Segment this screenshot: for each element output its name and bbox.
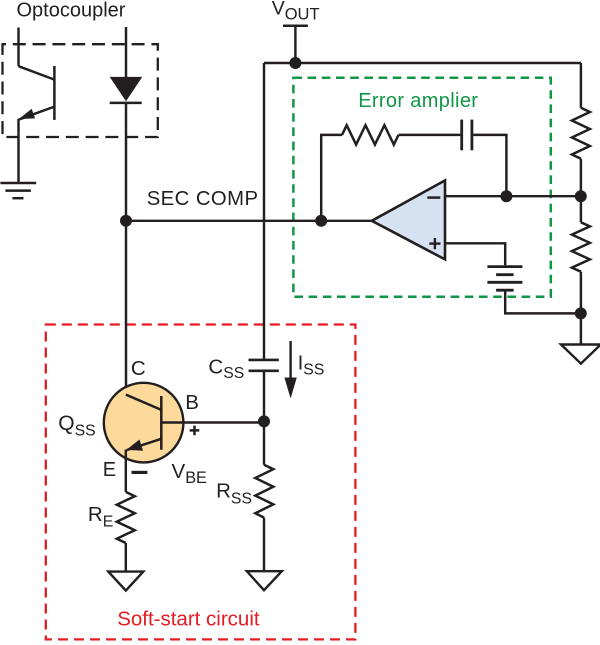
- wire noninverting input: [445, 243, 505, 265]
- wire inverting input: [445, 195, 581, 197]
- svg-text:Optocoupler: Optocoupler: [17, 0, 126, 21]
- error amplifier green dashed box: [293, 78, 550, 297]
- node divider mid junction: [575, 190, 587, 202]
- svg-text:ISS: ISS: [298, 351, 325, 378]
- transistor Q1 optocoupler phototransistor: [19, 28, 55, 183]
- optocoupler dashed box: [3, 44, 158, 137]
- minus sign at emitter: [132, 471, 148, 474]
- svg-text:QSS: QSS: [58, 412, 95, 440]
- diode D1 LED: [110, 77, 143, 103]
- svg-text:Error amplier: Error amplier: [358, 90, 478, 112]
- op-amp minus sign: [427, 196, 440, 199]
- wire divider bottom to ground: [580, 272, 582, 345]
- resistor RSS: [255, 465, 273, 518]
- node divider bottom junction: [575, 307, 587, 319]
- wire feedback left vertical: [321, 135, 342, 221]
- svg-text:RSS: RSS: [216, 480, 252, 508]
- wire left vertical branch from top rail to CSS: [263, 63, 265, 360]
- svg-text:RE: RE: [88, 503, 113, 530]
- svg-text:CSS: CSS: [208, 355, 244, 382]
- wire diode cathode down through SEC COMP to QSS collector: [125, 103, 127, 395]
- op-amp plus sign: [429, 238, 440, 249]
- plus sign at base: [190, 426, 200, 436]
- resistor RE: [117, 492, 135, 543]
- wire RSS to ground: [263, 518, 265, 572]
- ground (chassis triangle) under RE: [108, 572, 143, 591]
- ground (earth) under optocoupler: [0, 183, 36, 198]
- ground (chassis triangle) right rail: [561, 345, 600, 364]
- node inverting input junction: [500, 190, 512, 202]
- wire VOUT down to top rail: [294, 26, 296, 63]
- node error amp output junction: [315, 215, 327, 227]
- wire RE to ground: [125, 543, 127, 572]
- capacitor CSS: [249, 360, 279, 371]
- transistor QSS internals: [126, 395, 162, 492]
- resistor feedback: [342, 125, 399, 144]
- svg-text:SEC COMP: SEC COMP: [147, 188, 259, 210]
- svg-text:C: C: [131, 357, 146, 380]
- node VOUT junction: [289, 57, 301, 69]
- resistor R2 lower divider: [572, 222, 590, 271]
- svg-text:B: B: [185, 391, 199, 414]
- resistor R1 upper divider: [572, 108, 590, 159]
- svg-text:VOUT: VOUT: [272, 0, 320, 24]
- VOUT terminal bar: [283, 25, 308, 28]
- op-amp U1: [372, 180, 445, 259]
- wire capacitor to inverting input node: [473, 135, 506, 196]
- ground (chassis triangle) under RSS: [247, 571, 282, 590]
- svg-text:VBE: VBE: [172, 460, 208, 487]
- node SEC COMP left junction: [120, 215, 132, 227]
- wire SEC COMP horizontal: [126, 220, 372, 222]
- wire QSS base to node: [161, 421, 264, 423]
- wire CSS bottom to base node and RSS: [263, 371, 265, 465]
- transistor QSS body: [104, 383, 184, 463]
- current arrow ISS: [284, 341, 296, 399]
- wire right rail top segment: [580, 63, 582, 108]
- wire between divider resistors: [580, 159, 582, 223]
- svg-text:E: E: [103, 459, 116, 481]
- soft-start red dashed box: [46, 325, 356, 640]
- wire resistor to capacitor: [399, 134, 461, 136]
- wire battery to divider bottom node: [505, 292, 581, 314]
- wire optocoupler LED anode: [125, 27, 127, 77]
- svg-text:Soft-start circuit: Soft-start circuit: [117, 608, 260, 631]
- node QSS base junction: [258, 415, 270, 427]
- battery reference V1: [487, 267, 522, 291]
- capacitor feedback: [462, 120, 472, 151]
- wire top horizontal rail: [264, 62, 581, 64]
